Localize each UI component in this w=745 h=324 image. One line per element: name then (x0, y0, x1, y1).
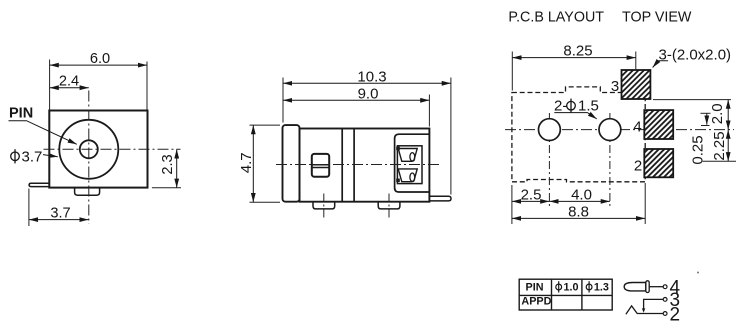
PIN leader (9, 121, 77, 145)
table text phi 1.3 (586, 284, 592, 290)
dim 8.25 (512, 57, 636, 59)
terminal block housing (395, 134, 430, 192)
dim 2.4 (50, 87, 89, 89)
dim 3.7 extension line (28, 189, 30, 227)
pin 2 spring and wire (626, 306, 663, 314)
pcb dashed outline (512, 87, 645, 182)
svg-text:3.7: 3.7 (22, 149, 43, 166)
svg-text:2: 2 (670, 305, 681, 324)
switch lever arm (429, 196, 451, 201)
dim 6.0 extension lines (49, 60, 51, 110)
svg-text:PIN: PIN (526, 281, 544, 293)
dim 2.3 (176, 149, 178, 188)
svg-text:1.0: 1.0 (564, 281, 579, 293)
dim 4.7 extension lines (250, 124, 281, 126)
svg-text:10.3: 10.3 (357, 69, 386, 86)
svg-text:0.25: 0.25 (689, 135, 706, 164)
dim 8.25 extension lines (511, 52, 513, 91)
pin 4 disc (646, 281, 649, 293)
label 2-phi1.5 leader (554, 113, 597, 119)
hole 2 (599, 119, 621, 141)
hole 1 (539, 119, 561, 141)
svg-text:2.3: 2.3 (160, 154, 176, 174)
left mounting tab (29, 183, 49, 186)
side view centerline (276, 164, 440, 166)
svg-text:4.7: 4.7 (238, 152, 255, 173)
side body outline (300, 129, 430, 202)
svg-text:PIN: PIN (9, 106, 33, 122)
svg-text:3-(2.0x2.0): 3-(2.0x2.0) (659, 46, 732, 63)
dim 2.5 / 4.0 (512, 200, 550, 202)
hole 1 centerline vertical (548, 113, 550, 208)
lower contact (398, 169, 417, 182)
pad 4 (644, 110, 673, 139)
pin 2 terminal circle (663, 312, 667, 316)
svg-text:2.25: 2.25 (711, 131, 728, 160)
table text phi 1.0 (556, 284, 562, 290)
pad3 bottom extension line (653, 99, 731, 101)
dim 9.0 extension line (428, 95, 430, 127)
bottom pin bump (75, 188, 100, 196)
pin 3 terminal circle (663, 298, 667, 302)
svg-text:9.0: 9.0 (358, 85, 379, 102)
solder pin right (378, 202, 400, 209)
pad 2 (644, 149, 673, 177)
hole centerline horizontal (505, 129, 734, 131)
solder pin left (313, 202, 335, 209)
body division line 2 (353, 129, 355, 202)
dim 2.3 extension line (152, 187, 181, 189)
svg-text:2.0: 2.0 (709, 103, 726, 124)
barrel outer circle (59, 120, 118, 179)
pin left centerline (323, 194, 325, 221)
svg-text:P.C.B LAYOUT: P.C.B LAYOUT (508, 10, 604, 26)
svg-text:2: 2 (634, 158, 642, 175)
svg-text:3: 3 (611, 78, 619, 95)
dim 8.8 (512, 217, 645, 219)
pin 3 wire (644, 299, 664, 308)
pin right centerline (388, 194, 390, 220)
svg-text:3.7: 3.7 (50, 206, 70, 222)
pad 3 (622, 70, 651, 99)
terminal block inner cavity (397, 146, 422, 184)
horizontal centerline (44, 148, 181, 150)
svg-text:APPD: APPD (521, 295, 551, 307)
contact rivet dots (396, 147, 400, 151)
vertical centerline (88, 91, 90, 224)
latch window (312, 154, 329, 177)
label 3-(2.0x2.0) leader (653, 61, 668, 68)
svg-text:TOP VIEW: TOP VIEW (622, 10, 692, 26)
svg-text:4: 4 (633, 119, 641, 136)
dim 0.25 ticks (701, 112, 711, 114)
dim 6.0 (50, 64, 147, 66)
pin 3 contact tip (642, 308, 645, 312)
svg-text:2-: 2- (554, 98, 567, 115)
dim 10.3 extension lines (282, 78, 284, 123)
dim 2.0 (727, 100, 729, 130)
front body outline (49, 111, 147, 188)
svg-text:1.5: 1.5 (578, 98, 599, 115)
dim 10.3 (283, 82, 451, 84)
front flange strip (283, 125, 300, 202)
body division line 1 (341, 129, 343, 202)
svg-text:2.4: 2.4 (59, 74, 79, 90)
svg-text:2.5: 2.5 (521, 186, 542, 203)
svg-text:1.3: 1.3 (594, 281, 609, 293)
svg-text:4.0: 4.0 (571, 186, 592, 203)
table frame (519, 279, 612, 310)
upper contact (398, 149, 417, 162)
scan speck (697, 272, 699, 274)
dim 3.7 (29, 219, 89, 221)
center pin inner circle (80, 140, 98, 158)
pin 4 terminal circle (663, 285, 667, 289)
phi 3.7 label (11, 152, 20, 161)
pin 4 barrel (624, 283, 646, 291)
phi 3.7 leader (43, 155, 58, 157)
svg-text:6.0: 6.0 (90, 51, 110, 67)
svg-text:8.8: 8.8 (568, 203, 589, 220)
dim 4.7 (252, 125, 254, 202)
dim 8.8 extension lines (511, 185, 513, 224)
dim 9.0 (283, 99, 429, 101)
pin 4 wire (649, 286, 663, 288)
svg-text:8.25: 8.25 (563, 43, 592, 60)
hole 2 centerline vertical (609, 113, 611, 208)
dim 2.25 extension line (703, 160, 737, 162)
dim 0.25 arrow (706, 113, 708, 124)
dim 2.25 (727, 130, 729, 162)
